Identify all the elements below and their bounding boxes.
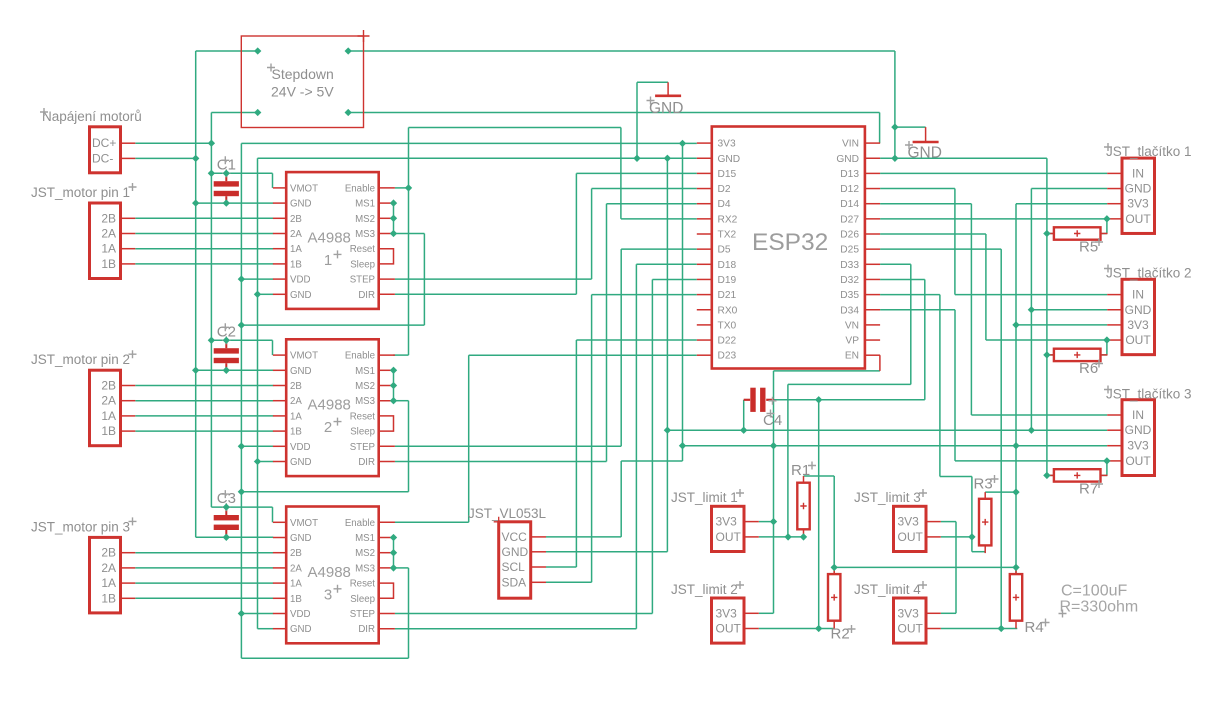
pin MS2 of A4988 2 <box>379 385 394 387</box>
pin D32 of ESP32 (right) <box>865 278 880 280</box>
resistor R3 <box>984 492 986 499</box>
pin 3V3 of JST_limit 3 <box>926 521 941 523</box>
svg-text:1B: 1B <box>290 594 302 605</box>
pin D15 of ESP32 (left) <box>697 172 712 174</box>
pin OUT of JST_limit 4 <box>926 628 941 630</box>
wire GND riser mid <box>257 294 259 461</box>
wire D27-OUT1 wire <box>880 218 1107 220</box>
pin VDD of A4988 2 <box>273 445 286 447</box>
wire GND1 symbol jog <box>637 81 668 83</box>
svg-text:D19: D19 <box>718 275 737 286</box>
wire DIR1 riser <box>575 173 577 294</box>
svg-text:3V3: 3V3 <box>1127 197 1149 211</box>
wire D5 wire <box>621 248 697 250</box>
junction GND2-2 <box>254 458 261 465</box>
svg-text:1B: 1B <box>101 591 116 605</box>
pin TX2 of ESP32 (left) <box>697 233 712 235</box>
pin GND of ESP32 (left) <box>697 157 712 159</box>
svg-text:Enable: Enable <box>345 183 375 194</box>
wire MS1-MS3 link bank2 <box>393 370 395 400</box>
svg-text:Reset: Reset <box>350 579 376 590</box>
svg-text:MS1: MS1 <box>355 533 375 544</box>
wire OUT-tl3 wire <box>955 460 1107 462</box>
svg-text:DC+: DC+ <box>92 136 116 150</box>
wire SDA wire <box>546 581 592 583</box>
junction C1 bottom <box>223 199 230 206</box>
pin D2 of ESP32 (left) <box>697 188 712 190</box>
svg-text:1B: 1B <box>290 259 302 270</box>
svg-text:OUT: OUT <box>898 622 924 636</box>
svg-text:R7: R7 <box>1079 481 1098 498</box>
pin GND of A4988 2 <box>273 369 286 371</box>
pin VCC of JST_VL053L <box>531 536 546 538</box>
svg-text:D18: D18 <box>718 260 737 271</box>
pin D4 of ESP32 (left) <box>697 203 712 205</box>
junction 24V trunk <box>208 170 215 177</box>
svg-text:2B: 2B <box>290 214 302 225</box>
connector Napajeni motoru (DC) <box>90 127 121 173</box>
wire STEP2 wire <box>395 445 621 447</box>
svg-text:D23: D23 <box>718 351 737 362</box>
pin VDD of A4988 3 <box>273 613 286 615</box>
junction VDD3 <box>238 610 245 617</box>
wire motor1 2A <box>135 233 273 235</box>
junction R4 top <box>1012 564 1019 571</box>
driver IC A4988 1 <box>286 172 379 309</box>
wire GND-tl2 wire <box>1031 309 1107 311</box>
junction 3V3 right c <box>1012 488 1019 495</box>
pin 3V3 of JST_limit 2 <box>744 612 759 614</box>
svg-text:TX2: TX2 <box>718 230 737 241</box>
wire GND drop right <box>894 51 896 158</box>
svg-text:GND: GND <box>290 533 312 544</box>
wire D32 wire <box>880 278 925 280</box>
pin GND of A4988 1 <box>273 293 286 295</box>
wire motor2 1B <box>135 430 273 432</box>
junction MS2-2 <box>390 382 397 389</box>
pin MS3 of A4988 3 <box>379 567 395 569</box>
svg-text:R6: R6 <box>1079 360 1098 377</box>
wire GND to A4988-1 GND2 pin <box>258 293 274 295</box>
connector JST_motor pin 2 <box>90 370 121 446</box>
wire R6 right stub <box>1100 354 1107 356</box>
wire motor3 1B <box>135 597 273 599</box>
wire D34 riser <box>954 310 956 461</box>
wire R6 right riser <box>1106 340 1108 355</box>
svg-text:GND: GND <box>290 366 312 377</box>
pin 3V3 of JST_limit 4 <box>926 612 941 614</box>
wire GND tl riser <box>1030 189 1032 431</box>
wire 3V3-tl1 wire <box>1016 203 1107 205</box>
svg-text:1B: 1B <box>101 257 116 271</box>
wire VDD to A4988-3 <box>241 613 273 615</box>
junction OUT2 trunk <box>815 396 822 403</box>
connector JST_tlacitko 3 <box>1122 400 1155 476</box>
svg-text:Enable: Enable <box>345 518 375 529</box>
wire enable riser <box>408 128 410 356</box>
wire limit2 OUT wire <box>759 628 834 630</box>
wire STEP1 riser <box>591 189 593 280</box>
wire MS riser bank1 <box>423 234 425 326</box>
wire motor3 2B <box>135 552 273 554</box>
junction GND mid tap <box>664 155 671 162</box>
svg-text:MS2: MS2 <box>355 381 375 392</box>
capacitor C2 <box>225 340 227 348</box>
svg-text:GND: GND <box>1125 182 1152 196</box>
wire D35 wire <box>880 294 940 296</box>
svg-text:MS3: MS3 <box>355 229 375 240</box>
svg-text:1A: 1A <box>290 411 302 422</box>
wire D14 riser <box>970 204 972 415</box>
pin D14 of ESP32 (right) <box>865 203 880 205</box>
wire 24V drop to VMOT2 <box>272 340 274 355</box>
wire R1-R2 drop <box>833 476 835 574</box>
wire limit4 OUT wire <box>941 628 1018 630</box>
pin 2A of A4988 3 <box>273 567 286 569</box>
wire MS3-3 wire <box>394 567 409 569</box>
resistor R7 <box>1047 474 1054 476</box>
junction GND2 sym <box>891 123 898 130</box>
pin VN of ESP32 (right) <box>865 324 880 326</box>
pin GND of JST_tlacitko 3 <box>1107 429 1122 431</box>
junction VDD1 <box>238 275 245 282</box>
pin DC- <box>121 157 136 159</box>
wire GND riser low <box>257 462 259 629</box>
svg-text:JST_limit 1: JST_limit 1 <box>671 490 738 505</box>
svg-text:C4: C4 <box>763 412 782 429</box>
svg-text:2A: 2A <box>290 229 302 240</box>
pin 1B of JST_motor 3 <box>121 597 136 599</box>
wire limit4 3V3 wire <box>941 612 956 614</box>
wire SDA riser <box>591 295 593 583</box>
svg-text:Sleep: Sleep <box>350 259 375 270</box>
junction R6 left <box>1043 351 1050 358</box>
svg-text:3V3: 3V3 <box>1127 318 1149 332</box>
svg-text:IN: IN <box>1132 408 1144 422</box>
wire D12 riser <box>954 189 956 295</box>
svg-text:2A: 2A <box>101 561 116 575</box>
wire MS3-2 wire <box>394 400 409 402</box>
pin 3V3 of JST_limit 1 <box>744 521 759 523</box>
svg-text:GND: GND <box>649 100 683 117</box>
svg-text:D35: D35 <box>840 290 859 301</box>
connector JST_limit 3 <box>894 506 927 551</box>
svg-text:VCC: VCC <box>502 530 528 544</box>
pin SDA of JST_VL053L <box>531 581 546 583</box>
pin GND of A4988 3 <box>273 628 286 630</box>
svg-text:GND: GND <box>290 290 312 301</box>
wire SCL riser <box>575 340 577 567</box>
wire limit1 OUT wire <box>759 536 804 538</box>
svg-text:JST_motor pin 3: JST_motor pin 3 <box>31 519 130 534</box>
junction GND row2 <box>192 367 199 374</box>
wire D13-IN1 wire <box>880 172 1107 174</box>
pin 1A of A4988 1 <box>273 248 286 250</box>
wire D15 wire <box>576 172 696 174</box>
junction MS2-1 <box>390 215 397 222</box>
pin SCL of JST_VL053L <box>531 566 546 568</box>
junction VDD2 <box>238 443 245 450</box>
wire R3 top wire <box>985 491 1016 493</box>
svg-text:D4: D4 <box>718 199 731 210</box>
wire VL053L GND wire <box>546 551 667 553</box>
wire GND riser mid column <box>666 158 668 552</box>
pin D27 of ESP32 (right) <box>865 218 880 220</box>
wire D18 wire <box>636 263 696 265</box>
svg-text:JST_motor pin 2: JST_motor pin 2 <box>31 352 130 367</box>
wire D4 wire <box>607 203 697 205</box>
wire GND left vertical <box>195 51 197 537</box>
connector JST_limit 4 <box>894 598 927 643</box>
pin IN of JST_tlacitko 1 <box>1107 172 1122 174</box>
capacitor C1 <box>225 173 227 181</box>
reset-sleep jumper of A4988 2 <box>379 416 394 431</box>
svg-text:3V3: 3V3 <box>718 139 736 150</box>
junction C3 top <box>223 503 230 510</box>
svg-text:R3: R3 <box>974 476 993 493</box>
pin MS1 of A4988 3 <box>379 537 394 539</box>
wire motor3 2A <box>135 567 273 569</box>
svg-text:GND: GND <box>1125 423 1152 437</box>
svg-text:DIR: DIR <box>358 624 375 635</box>
svg-text:D2: D2 <box>718 184 731 195</box>
svg-text:3V3: 3V3 <box>1127 439 1149 453</box>
junction C4 left <box>740 427 747 434</box>
svg-text:1A: 1A <box>290 579 302 590</box>
svg-text:RX0: RX0 <box>718 305 738 316</box>
wire R2-R4 top trunk <box>834 566 1016 568</box>
junction 3V3 trunk left <box>679 442 686 449</box>
junction 24V/DC+ <box>208 140 215 147</box>
svg-text:GND: GND <box>1125 303 1152 317</box>
pin GND of ESP32 (right) <box>865 157 880 159</box>
wire 3V3 riser mid column <box>682 143 684 461</box>
pin 2B of JST_motor 1 <box>121 217 136 219</box>
svg-text:VDD: VDD <box>290 442 310 453</box>
svg-text:R5: R5 <box>1079 239 1098 256</box>
resistor R5 <box>1047 233 1054 235</box>
wire MS riser bank2 <box>408 401 410 492</box>
reset-sleep jumper of A4988 3 <box>379 583 394 598</box>
svg-text:JST_limit 3: JST_limit 3 <box>854 490 921 505</box>
pin 3V3 of JST_tlacitko 2 <box>1107 324 1122 326</box>
svg-text:D21: D21 <box>718 290 737 301</box>
svg-text:Sleep: Sleep <box>350 427 375 438</box>
junction C2 bottom <box>223 367 230 374</box>
pin DIR of A4988 2 <box>379 461 395 463</box>
wire limit3 OUT riser <box>971 477 973 552</box>
connector JST_tlacitko 1 <box>1122 158 1155 233</box>
junction 3V3 right b <box>1012 442 1019 449</box>
junction MS trunk2 <box>238 488 245 495</box>
pin 2A of A4988 1 <box>273 233 286 235</box>
connector JST_limit 2 <box>712 598 745 643</box>
svg-text:STEP: STEP <box>350 609 375 620</box>
junction stepdown GND out <box>345 47 352 54</box>
wire DIR2 riser <box>606 204 608 462</box>
wire C4 left drop <box>743 400 745 430</box>
pin 2B of JST_motor 3 <box>121 552 136 554</box>
svg-text:OUT: OUT <box>1125 454 1151 468</box>
svg-text:3V3: 3V3 <box>716 606 738 620</box>
pin GND of JST_tlacitko 1 <box>1107 188 1122 190</box>
svg-text:2B: 2B <box>101 211 116 225</box>
svg-text:2A: 2A <box>290 396 302 407</box>
svg-text:MS1: MS1 <box>355 366 375 377</box>
wire 3V3 bottom trunk <box>683 445 1108 447</box>
wire D35 riser <box>939 295 941 477</box>
wire OUT1 riser <box>787 384 789 537</box>
svg-text:MS2: MS2 <box>355 548 375 559</box>
pin D18 of ESP32 (left) <box>697 263 712 265</box>
svg-text:JST_limit 2: JST_limit 2 <box>671 582 738 597</box>
wire EN-C4-3V3 vertical <box>773 371 775 613</box>
svg-text:SCL: SCL <box>502 560 526 574</box>
svg-text:GND: GND <box>290 457 312 468</box>
junction stepdown 24V in <box>254 109 261 116</box>
wire RX2 drop <box>620 128 622 219</box>
resistor R6 <box>1047 354 1054 356</box>
reset-sleep jumper of A4988 1 <box>379 249 394 264</box>
svg-text:2B: 2B <box>290 381 302 392</box>
wire Enable2 wire <box>393 354 408 356</box>
wire motor1 2B <box>135 217 273 219</box>
wire motor3 1A <box>135 582 273 584</box>
pin MS3 of A4988 1 <box>379 233 395 235</box>
svg-text:A4988: A4988 <box>308 397 351 414</box>
wire GND row A4988-3 <box>196 536 274 538</box>
junction 3V3 tap <box>679 140 686 147</box>
wire D25 riser <box>1000 249 1002 628</box>
svg-text:D13: D13 <box>840 169 859 180</box>
pin GND of A4988 2 <box>273 461 286 463</box>
wire 5V drop to VIN <box>879 113 881 144</box>
pin STEP of A4988 3 <box>379 613 395 615</box>
wire 24V drop to VMOT1 <box>272 173 274 188</box>
wire GND stub to R6 <box>1047 354 1054 356</box>
wire GND link to GND2 symbol <box>895 126 926 128</box>
svg-text:D5: D5 <box>718 245 731 256</box>
wire motor2 1A <box>135 415 273 417</box>
pin DIR of A4988 3 <box>379 628 395 630</box>
pin MS2 of A4988 3 <box>379 552 394 554</box>
pin MS1 of A4988 2 <box>379 369 394 371</box>
wire limit1 3V3 wire <box>759 521 774 523</box>
wire GND stub to R7 <box>1047 474 1054 476</box>
wire 5V stepdown in link <box>211 112 257 114</box>
svg-text:GND: GND <box>290 199 312 210</box>
wire motor2 2A <box>135 400 273 402</box>
junction 3V3 EN riser <box>770 442 777 449</box>
pin 2A of JST_motor 2 <box>121 400 136 402</box>
junction 24V trunk2 <box>208 337 215 344</box>
svg-text:2A: 2A <box>101 227 116 241</box>
wire D25 wire <box>880 248 1001 250</box>
wire MS riser bank3 <box>408 568 410 658</box>
wire OUT-tl2 wire <box>986 339 1107 341</box>
svg-text:RX2: RX2 <box>718 214 738 225</box>
pin D25 of ESP32 (right) <box>865 248 880 250</box>
wire motor2 2B <box>135 385 273 387</box>
wire D33 riser <box>910 264 912 384</box>
resistor R4 <box>1015 567 1017 574</box>
svg-text:OUT: OUT <box>716 530 742 544</box>
wire 24V DC+ horizontal <box>135 142 211 144</box>
wire D35 jog <box>940 476 972 478</box>
pin VP of ESP32 (right) <box>865 339 880 341</box>
pin TX0 of ESP32 (left) <box>697 324 712 326</box>
wire GND riser to pull resistors <box>1046 158 1048 475</box>
svg-text:3V3: 3V3 <box>716 515 738 529</box>
pin OUT of JST_limit 2 <box>744 628 759 630</box>
wire 24V drop to VMOT3 <box>272 507 274 522</box>
svg-text:2A: 2A <box>101 394 116 408</box>
junction MS1-3 <box>390 534 397 541</box>
wire D32 riser <box>924 279 926 399</box>
svg-text:OUT: OUT <box>1125 212 1151 226</box>
junction GND row1 <box>192 199 199 206</box>
svg-text:GND: GND <box>836 154 859 165</box>
wire GND top trunk <box>348 50 895 52</box>
wire limit3-4 3V3 link <box>955 522 957 614</box>
wire 5V trunk to VIN <box>348 112 879 114</box>
ground symbol GND2 <box>925 127 927 142</box>
svg-text:1A: 1A <box>101 576 116 590</box>
wire Enable3 wire <box>393 521 469 523</box>
junction Enable1 <box>405 184 412 191</box>
svg-text:GND: GND <box>502 545 529 559</box>
svg-text:1A: 1A <box>101 409 116 423</box>
svg-text:3V3: 3V3 <box>898 606 920 620</box>
junction limit1 OUT a <box>784 533 791 540</box>
svg-text:VDD: VDD <box>290 609 310 620</box>
wire 3V3-VCC jog <box>621 460 682 462</box>
svg-text:OUT: OUT <box>898 530 924 544</box>
wire motor1 1B <box>135 263 273 265</box>
junction R7 right <box>1103 457 1110 464</box>
pin 1A of A4988 2 <box>273 415 286 417</box>
pin Enable of A4988 1 <box>379 187 395 189</box>
pin OUT of JST_limit 1 <box>744 536 759 538</box>
svg-text:GND: GND <box>290 624 312 635</box>
junction stepdown 5V out <box>345 109 352 116</box>
pin IN of JST_tlacitko 2 <box>1107 294 1122 296</box>
wire limit3 OUT wire <box>941 536 972 538</box>
wire GND-tl1 wire <box>1031 188 1107 190</box>
wire 24V trunk to VMOT2 <box>211 339 272 341</box>
wire 24V trunk to VMOT1 <box>211 172 272 174</box>
junction MS3-1 <box>390 230 397 237</box>
svg-text:VMOT: VMOT <box>290 518 318 529</box>
pin 3V3 of ESP32 (left) <box>697 142 712 144</box>
junction MS3-2 <box>390 397 397 404</box>
svg-text:JST_limit 4: JST_limit 4 <box>854 582 921 597</box>
svg-text:A4988: A4988 <box>308 229 351 246</box>
pin 1B of A4988 1 <box>273 263 286 265</box>
wire R5 right riser <box>1106 219 1108 234</box>
wire DIR3 wire <box>395 628 637 630</box>
pin Enable of A4988 2 <box>379 354 395 356</box>
wire GND1 symbol riser <box>636 82 638 158</box>
pin 1B of JST_motor 1 <box>121 263 136 265</box>
pin D35 of ESP32 (right) <box>865 294 880 296</box>
svg-text:TX0: TX0 <box>718 320 737 331</box>
pin D34 of ESP32 (right) <box>865 309 880 311</box>
pin OUT of JST_tlacitko 1 <box>1107 218 1122 220</box>
svg-text:VN: VN <box>845 320 859 331</box>
wire D34 wire <box>880 309 955 311</box>
wire 3V3/VDD vertical <box>240 143 242 658</box>
